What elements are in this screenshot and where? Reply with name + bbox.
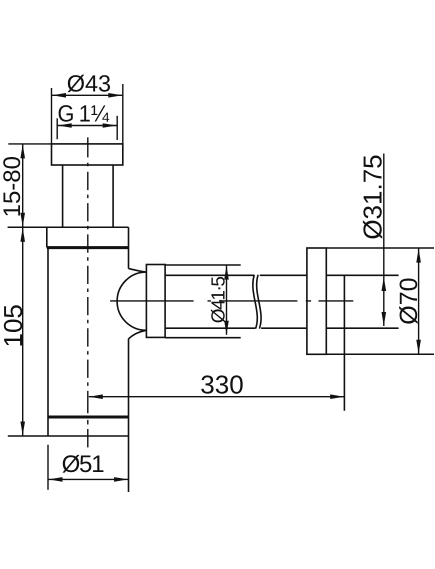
dimension Ø51 extension line left (47, 445, 49, 490)
outer tube top edge (165, 264, 241, 266)
arrowhead 330 right (330, 394, 344, 399)
dimension 15-80 line (22, 144, 24, 227)
body right edge upper (128, 247, 130, 268)
arrowhead Ø70 top (416, 249, 421, 263)
svg-text:Ø51: Ø51 (62, 451, 105, 478)
vertical centerline of body (87, 137, 89, 447)
dimension 15-80 extension line top (8, 143, 51, 145)
flange top extension line for Ø70 (326, 247, 434, 249)
inner pipe bottom edge segment 1 (165, 327, 255, 329)
cap ring top edge with left extension (8, 226, 129, 228)
outer tube bottom edge (165, 337, 241, 339)
cap ring right edge (128, 227, 130, 247)
body bottom edge with left extension (8, 435, 129, 437)
svg-text:Ø70: Ø70 (395, 277, 423, 324)
pipe break squiggle left (253, 275, 257, 329)
arrowhead G1-1/4 right (103, 123, 117, 128)
dimension Ø51 line (48, 478, 129, 480)
compression nut outline (146, 265, 165, 338)
arrowhead 15-80 top (20, 144, 25, 158)
svg-text:15-80: 15-80 (0, 156, 26, 217)
pipe break squiggle right (257, 275, 261, 329)
arrowhead Ø51 right (114, 477, 128, 482)
dimension Ø43 line (52, 94, 123, 96)
svg-text:330: 330 (200, 370, 243, 400)
inner pipe top edge segment 1 (165, 274, 254, 276)
arrowhead G1-1/4 left (58, 123, 72, 128)
arrowhead 105 bottom (20, 422, 25, 436)
dimension G1-1/4 line (57, 125, 117, 127)
dimension G1-1/4 extension lines (56, 118, 58, 139)
body right edge lower with Ø51 extension (128, 339, 130, 492)
dimension Ø43 extension lines (51, 88, 53, 144)
inlet tube right edge (112, 165, 114, 227)
inner pipe bottom edge segment 2 (261, 327, 307, 329)
cap ring left edge (46, 227, 48, 247)
body bottom thick line (48, 416, 129, 419)
svg-text:105: 105 (0, 304, 28, 347)
outlet boss arc (117, 269, 146, 339)
arrowhead Ø41.5 top (224, 266, 229, 280)
dimension Ø70 line (418, 248, 420, 354)
dimension Ø31.75 line (383, 154, 385, 327)
horizontal centerline of outlet pipe (110, 300, 353, 302)
wall escutcheon flange outline (307, 248, 326, 354)
arrowhead 105 top (20, 228, 25, 242)
flange bottom extension line for Ø70 (326, 353, 434, 355)
svg-text:Ø43: Ø43 (67, 70, 111, 96)
arrowhead Ø51 left (49, 477, 63, 482)
svg-text:Ø31.75: Ø31.75 (358, 154, 388, 239)
inlet tube left edge (62, 165, 64, 227)
dimension 105 line (22, 227, 24, 436)
arrowhead Ø70 bottom (416, 340, 421, 354)
inner pipe top edge segment 2 (260, 274, 307, 276)
arrowhead Ø43 left (52, 93, 66, 98)
dimension 330 line (89, 396, 344, 398)
svg-text:G 1¼: G 1¼ (58, 100, 110, 126)
arrowhead 330 left (89, 394, 103, 399)
body left edge (47, 247, 49, 436)
arrowhead 15-80 bottom (20, 213, 25, 227)
inner pipe top edge segment 3 with Ø31.75 extension (326, 274, 398, 276)
top flange nut outline (52, 144, 123, 165)
arrowhead Ø43 right (108, 93, 122, 98)
arrowhead Ø31.75 top (382, 277, 387, 291)
arrowhead Ø41.5 bottom (224, 321, 229, 335)
cap ring bottom thick edge (47, 246, 129, 249)
svg-text:Ø41·5: Ø41·5 (209, 277, 230, 324)
dimension Ø41.5 line (226, 265, 228, 335)
pipe end vertical line with 330 extension (343, 275, 345, 410)
arrowhead Ø31.75 bottom (382, 312, 387, 326)
inner pipe bottom edge segment 3 with Ø31.75 extension (326, 327, 398, 329)
